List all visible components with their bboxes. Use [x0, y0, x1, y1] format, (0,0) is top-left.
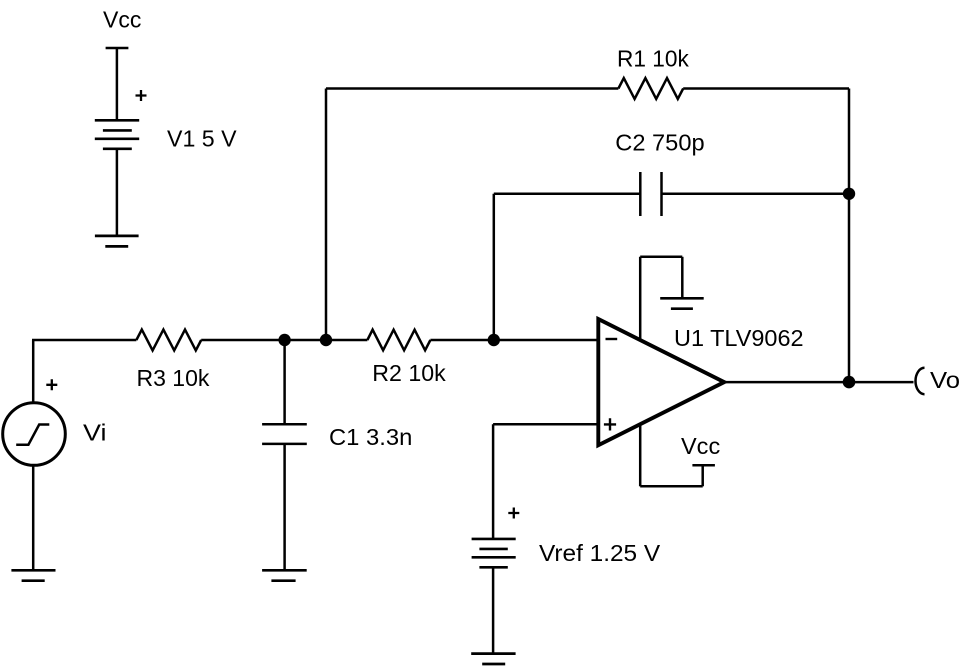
wire: [283, 444, 286, 570]
wire: [639, 257, 642, 340]
svg-text:V1 5 V: V1 5 V: [167, 125, 237, 151]
battery Vref: [472, 539, 516, 567]
wire: [32, 465, 35, 570]
op-amp U1: [598, 319, 724, 445]
wire: [683, 87, 849, 90]
output port Vo: [916, 368, 925, 394]
svg-text:R2 10k: R2 10k: [372, 360, 446, 386]
wire: [492, 424, 495, 539]
svg-text:R3 10k: R3 10k: [137, 365, 210, 391]
node junction C1: [278, 334, 290, 346]
wire: [430, 339, 598, 342]
ground (Vi): [11, 570, 55, 580]
capacitor C2: [640, 172, 661, 216]
node junction C2 right: [843, 188, 855, 200]
wire: [32, 339, 136, 342]
svg-text:C2 750p: C2 750p: [615, 130, 704, 156]
wire: [201, 339, 367, 342]
wire: [640, 485, 703, 488]
wire: [326, 87, 618, 90]
svg-text:Vref 1.25 V: Vref 1.25 V: [539, 540, 661, 566]
svg-text:Vi: Vi: [83, 420, 107, 446]
wire: [283, 340, 286, 424]
plus sign Vref: [508, 508, 519, 519]
power terminal Vcc (top left): [106, 47, 129, 50]
svg-text:Vcc: Vcc: [681, 433, 720, 459]
plus sign (non-inverting input): [604, 418, 616, 430]
capacitor C1: [262, 424, 307, 444]
wire: [32, 340, 35, 403]
node junction C2 branch: [488, 334, 500, 346]
wire: [701, 465, 704, 486]
ground (V1): [95, 236, 139, 247]
wire: [681, 257, 684, 299]
wire: [116, 149, 119, 236]
ground (C1): [262, 570, 307, 580]
wire: [724, 381, 913, 384]
minus sign (inverting input): [606, 338, 618, 340]
wire: [494, 193, 641, 196]
ground (Vref): [471, 654, 515, 664]
wire: [325, 89, 328, 341]
resistor R2: [367, 330, 430, 351]
wire: [116, 48, 119, 120]
svg-text:Vo: Vo: [930, 367, 960, 393]
wire: [492, 567, 495, 653]
svg-text:C1 3.3n: C1 3.3n: [329, 424, 412, 450]
plus sign Vi: [46, 379, 57, 390]
plus sign V1: [136, 90, 147, 101]
battery V1: [95, 120, 139, 149]
wire: [493, 194, 496, 340]
resistor R1: [618, 78, 683, 99]
node junction feedback: [320, 334, 332, 346]
ground (op-amp V-): [660, 298, 704, 308]
power terminal Vcc (op-amp): [692, 464, 715, 467]
source Vi: [3, 403, 66, 466]
svg-text:Vcc: Vcc: [103, 7, 141, 33]
wire: [493, 423, 598, 426]
node output: [843, 376, 856, 389]
wire: [662, 193, 850, 196]
svg-text:R1 10k: R1 10k: [617, 45, 689, 71]
wire: [848, 89, 851, 383]
resistor R3: [136, 330, 201, 351]
svg-text:U1 TLV9062: U1 TLV9062: [674, 325, 804, 351]
wire: [640, 256, 682, 259]
wire: [639, 424, 642, 486]
